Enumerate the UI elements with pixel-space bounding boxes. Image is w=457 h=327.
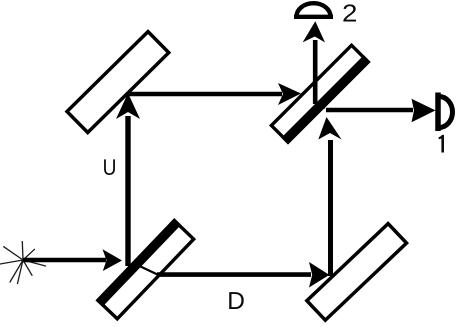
arrowhead into BS1 xyxy=(103,249,123,271)
beam splitter BS2 (upper-right, thick stripe lower-right edge) xyxy=(270,44,370,144)
wire D (horizontal) BS1 to M2 xyxy=(157,272,311,277)
label 2 xyxy=(343,4,356,21)
arrowhead into M2 xyxy=(309,262,329,288)
top wire M1 to BS2 xyxy=(127,92,282,97)
wire source to BS1 xyxy=(23,258,106,263)
arrowhead into BS2 bottom xyxy=(318,117,341,140)
arrowhead into detector 2 xyxy=(303,21,325,42)
label D xyxy=(229,292,244,309)
label U xyxy=(104,159,115,175)
wire up M2 to BS2 xyxy=(328,140,333,276)
mirror M2 (lower-right) xyxy=(307,224,407,321)
arrowhead into detector 1 xyxy=(412,99,436,123)
beam inside BS2 glass xyxy=(301,95,325,108)
label 1 xyxy=(439,135,444,153)
wire BS2 up to detector 2 xyxy=(313,40,318,104)
arrowhead U into M1 xyxy=(116,93,140,119)
detector D2 base xyxy=(294,15,333,19)
detector D1 flat bar xyxy=(435,93,441,132)
arrowhead into BS2 left xyxy=(278,83,301,105)
wire U (vertical) xyxy=(125,116,130,266)
beam inside BS1 glass xyxy=(132,263,158,275)
light source star xyxy=(0,242,46,284)
detector D1 dome xyxy=(439,97,453,128)
mirror M1 (upper-left) xyxy=(67,32,169,133)
detector D2 dome xyxy=(297,3,331,16)
beam splitter BS1 (lower-left, thick stripe upper-left edge) xyxy=(96,218,195,320)
wire BS2 right to detector 1 xyxy=(326,108,413,113)
